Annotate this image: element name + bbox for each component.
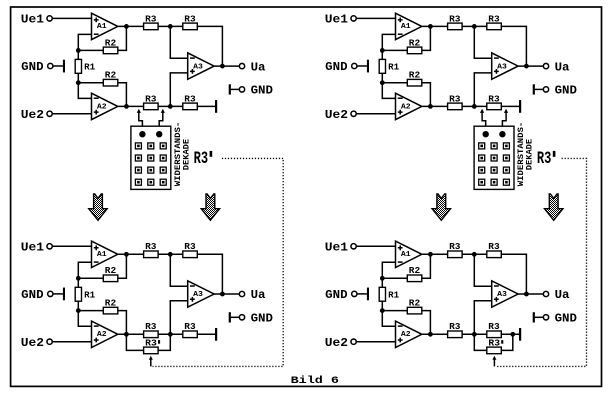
wire bottom chain (bottom-right) (462, 333, 487, 335)
node A1 feedback (top-left) (76, 48, 81, 53)
wire A2 output (bottom-right) (422, 333, 448, 335)
resistor R3 (top chain, second) (top-right) (487, 14, 502, 29)
wire A3 output to Ua (top-left) (214, 65, 239, 67)
node top chain junction (bottom-left) (168, 252, 173, 257)
resistor R3 (bottom chain, first) (bottom-right) (448, 322, 463, 337)
svg-text:A1: A1 (97, 251, 107, 259)
resistor R3 (bottom chain, second) (bottom-right) (487, 322, 502, 337)
svg-text:R2: R2 (105, 298, 116, 308)
resistor R3 (bottom chain, second) (top-left) (183, 94, 198, 109)
svg-text:Ue2: Ue2 (21, 108, 44, 122)
svg-text:R3: R3 (145, 14, 156, 24)
svg-text:GND: GND (21, 60, 43, 74)
resistor R1 (top-right) (379, 50, 400, 82)
wire A3 inverting input (top-left) (170, 26, 187, 58)
svg-text:R3: R3 (449, 14, 460, 24)
op-amp A2 (bottom-right) (396, 321, 422, 347)
svg-text:R3: R3 (537, 149, 552, 169)
svg-text:R3: R3 (488, 14, 499, 24)
wire A2 inverting input (top-left) (78, 83, 91, 99)
label R3' (decade value) (top-right) (537, 149, 555, 169)
svg-text:R3: R3 (145, 322, 156, 332)
arrow R3' adjustment (bottom-right) (492, 356, 496, 367)
wire R2 upper left (top-right) (382, 49, 407, 51)
svg-text:DEKADE: DEKADE (181, 139, 191, 170)
terminal GND (input side) (bottom-right) (325, 288, 369, 303)
wire A1 inverting input (top-right) (382, 34, 395, 50)
svg-text:Ua: Ua (251, 60, 266, 74)
terminal GND (input side) (bottom-left) (21, 288, 65, 303)
decade contact dot (right) (top-right) (499, 131, 505, 137)
wire bottom chain (top-left) (158, 105, 183, 107)
terminal GND (output side) (bottom-left) (229, 312, 273, 326)
terminal Ue2 (bottom-right) (325, 336, 396, 350)
resistor R3 (top chain, second) (bottom-right) (487, 242, 502, 257)
wire A3 inverting input (bottom-right) (474, 254, 491, 286)
resistor R2 (lower) (top-right) (407, 71, 422, 87)
wire A2 output (top-left) (118, 105, 144, 107)
ground (bottom-left) (215, 328, 217, 341)
svg-text:A2: A2 (97, 103, 107, 111)
decade tap arrow (left) (top-right) (480, 109, 486, 131)
node top chain junction (bottom-right) (472, 252, 477, 257)
terminal Ua (top-right) (543, 60, 569, 74)
resistor R1 (top-left) (75, 50, 96, 82)
op-amp A1 (bottom-left) (92, 241, 118, 267)
decade tap arrow (left) (top-left) (137, 109, 143, 131)
wire R3' right (bottom-right) (501, 334, 513, 350)
wire to ground bar (top-right) (501, 105, 519, 107)
wire to ground bar (bottom-right) (501, 333, 519, 335)
resistance decade box (top-right) (474, 126, 514, 189)
op-amp A1 (bottom-right) (396, 241, 422, 267)
svg-text:Ue1: Ue1 (21, 13, 44, 27)
resistor R3 (bottom chain, second) (bottom-left) (183, 322, 198, 337)
node bottom chain junction (top-right) (472, 104, 477, 109)
wire A3 inverting input (top-right) (474, 26, 491, 58)
svg-text:Ue2: Ue2 (21, 336, 44, 350)
svg-text:DEKADE: DEKADE (525, 139, 535, 170)
wire A3 output to Ua (bottom-right) (518, 293, 543, 295)
wire A3 noninverting input (top-right) (474, 73, 491, 107)
wire A3 inverting input (bottom-left) (170, 254, 187, 286)
label R3' (decade value) (top-left) (194, 149, 213, 169)
terminal Ue2 (bottom-left) (21, 336, 92, 350)
wire to ground bar (bottom-left) (197, 333, 215, 335)
node bottom chain junction (top-left) (168, 104, 173, 109)
node A1 output (top-left) (124, 24, 129, 29)
wire A3 noninverting input (bottom-left) (170, 301, 187, 335)
wire feedback to A3 output (bottom-right) (501, 254, 526, 294)
svg-text:R3: R3 (449, 322, 460, 332)
resistor R3 (top chain, first) (bottom-left) (144, 242, 159, 257)
svg-text:R3: R3 (184, 14, 195, 24)
svg-text:A2: A2 (97, 331, 107, 339)
resistor R2 (upper) (top-left) (103, 38, 118, 53)
resistor R3 (top chain, second) (bottom-left) (183, 242, 198, 257)
resistor R3&#39; (bottom-right) (487, 338, 504, 353)
node A1 output (bottom-right) (428, 252, 433, 257)
decade contact dot (left) (top-left) (139, 131, 145, 137)
svg-text:GND: GND (555, 84, 577, 98)
terminal Ue1 (bottom-right) (325, 240, 396, 254)
svg-text:Ua: Ua (251, 288, 266, 302)
node A1 output (bottom-left) (124, 252, 129, 257)
resistor R3 (bottom chain, first) (top-right) (448, 94, 463, 109)
svg-text:A1: A1 (97, 23, 107, 31)
terminal GND (output side) (top-right) (533, 84, 577, 98)
dotted link R3' (right half) (496, 158, 586, 366)
resistor R2 (upper) (top-right) (407, 38, 422, 53)
dotted link R3' (left half) (153, 158, 284, 366)
svg-text:GND: GND (251, 84, 273, 98)
node bottom chain junction (bottom-left) (168, 332, 173, 337)
wire R2 upper left (top-left) (78, 49, 103, 51)
node R3' right junction (bottom-right) (510, 332, 515, 337)
wire A1 inverting input (bottom-left) (78, 262, 91, 278)
wire A1 output (top-left) (118, 25, 144, 27)
node A3 output (bottom-left) (220, 292, 225, 297)
op-amp A2 (top-left) (92, 93, 118, 119)
resistor R2 (lower) (bottom-left) (103, 298, 118, 314)
transformation arrow 4 (545, 194, 563, 220)
svg-text:GND: GND (325, 288, 347, 302)
svg-text:Ue1: Ue1 (325, 240, 348, 254)
ground (bottom-right) (519, 328, 521, 341)
svg-text:Ua: Ua (555, 288, 570, 302)
svg-text:R3: R3 (449, 94, 460, 104)
arrow R3' adjustment (bottom-left) (149, 356, 153, 367)
terminal GND (output side) (top-left) (229, 84, 273, 98)
wire bottom chain (top-right) (462, 105, 487, 107)
node A2 output (top-left) (124, 104, 129, 109)
svg-text:R3: R3 (488, 242, 499, 252)
wire A2 output (top-right) (422, 105, 448, 107)
label DEKADE (top-right) (525, 139, 535, 170)
wire R2 upper left (bottom-right) (382, 277, 407, 279)
decade switch grid (top-right) (479, 143, 510, 185)
op-amp A3 (top-right) (492, 53, 518, 79)
wire A1 output (bottom-right) (422, 253, 448, 255)
op-amp A1 (top-right) (396, 13, 422, 39)
node A1 feedback (bottom-left) (76, 276, 81, 281)
node A2 feedback (bottom-right) (380, 308, 385, 313)
resistor R3 (bottom chain, first) (top-left) (144, 94, 159, 109)
svg-text:GND: GND (251, 312, 273, 326)
terminal GND (input side) (top-left) (21, 60, 65, 74)
wire R2 lower to A2 output (top-left) (118, 83, 127, 107)
ground (top-left) (215, 100, 217, 113)
wire A3 noninverting input (top-left) (170, 73, 187, 107)
svg-text:R3: R3 (184, 242, 195, 252)
svg-text:A3: A3 (193, 63, 203, 71)
wire R2 lower to A2 output (top-right) (422, 83, 431, 107)
node A2 feedback (top-right) (380, 80, 385, 85)
wire A2 inverting input (bottom-left) (78, 311, 91, 327)
svg-text:GND: GND (555, 312, 577, 326)
wire A2 output (bottom-left) (118, 333, 144, 335)
wire feedback to A3 output (top-right) (501, 26, 526, 66)
decade tap arrow (right) (top-left) (159, 109, 165, 131)
svg-text:A3: A3 (193, 291, 203, 299)
wire A2 inverting input (bottom-right) (382, 311, 395, 327)
wire top chain (bottom-right) (462, 253, 487, 255)
svg-text:R2: R2 (409, 298, 420, 308)
svg-text:R3: R3 (145, 338, 157, 348)
node A2 output (bottom-right) (428, 332, 433, 337)
svg-text:R2: R2 (409, 71, 420, 81)
svg-text:R3: R3 (488, 338, 500, 348)
wire A1 inverting input (bottom-right) (382, 262, 395, 278)
resistor R3 (top chain, first) (bottom-right) (448, 242, 463, 257)
node top chain junction (top-right) (472, 24, 477, 29)
transformation arrow 1 (89, 194, 107, 220)
svg-text:R2: R2 (409, 38, 420, 48)
wire A1 output (top-right) (422, 25, 448, 27)
svg-text:R1: R1 (84, 63, 96, 73)
svg-text:R3: R3 (449, 242, 460, 252)
node A2 output (top-right) (428, 104, 433, 109)
svg-text:R1: R1 (388, 63, 400, 73)
resistor R3 (bottom chain, first) (bottom-left) (144, 322, 159, 337)
resistor R2 (lower) (top-left) (103, 71, 118, 87)
svg-text:R1: R1 (388, 290, 400, 300)
wire A3 output to Ua (bottom-left) (214, 293, 239, 295)
svg-text:A1: A1 (401, 23, 411, 31)
svg-text:A2: A2 (401, 331, 411, 339)
wire R2 lower to A2 output (bottom-right) (422, 311, 431, 335)
node bottom chain junction (bottom-right) (472, 332, 477, 337)
resistor R2 (lower) (bottom-right) (407, 298, 422, 314)
svg-text:R3: R3 (184, 94, 195, 104)
wire feedback to A3 output (top-left) (197, 26, 222, 66)
wire R2 upper to A1 output (top-right) (422, 26, 431, 50)
svg-text:GND: GND (325, 60, 347, 74)
wire A2 inverting input (top-right) (382, 83, 395, 99)
svg-text:R2: R2 (105, 38, 116, 48)
svg-text:R3: R3 (488, 322, 499, 332)
terminal Ue1 (bottom-left) (21, 240, 92, 254)
wire R2 lower to A2 output (bottom-left) (118, 311, 127, 335)
wire R2 lower left (top-left) (78, 82, 103, 84)
wire R2 upper to A1 output (top-left) (118, 26, 127, 50)
decade switch grid (top-left) (135, 143, 166, 185)
decade contact dot (left) (top-right) (483, 131, 489, 137)
wire A1 inverting input (top-left) (78, 34, 91, 50)
svg-text:R2: R2 (409, 266, 420, 276)
svg-text:R3: R3 (194, 149, 209, 169)
svg-text:A2: A2 (401, 103, 411, 111)
wire R2 lower left (bottom-left) (78, 310, 103, 312)
terminal Ue1 (top-right) (325, 13, 396, 27)
terminal Ua (bottom-left) (239, 288, 265, 302)
terminal GND (input side) (top-right) (325, 60, 369, 74)
transformation arrow 3 (432, 194, 450, 220)
svg-text:R3: R3 (145, 94, 156, 104)
wire to ground bar (top-left) (197, 105, 215, 107)
svg-text:R2: R2 (105, 266, 116, 276)
terminal GND (output side) (bottom-right) (533, 312, 577, 326)
svg-text:R3: R3 (184, 322, 195, 332)
node A2 feedback (bottom-left) (76, 308, 81, 313)
svg-text:Ue1: Ue1 (325, 13, 348, 27)
resistor R1 (bottom-right) (379, 278, 400, 310)
svg-text:Ue1: Ue1 (21, 240, 44, 254)
wire R3' left (bottom-right) (474, 334, 487, 350)
svg-text:R2: R2 (105, 71, 116, 81)
terminal Ua (bottom-right) (543, 288, 569, 302)
transformation arrow 2 (201, 194, 219, 220)
caption Bild 6 (291, 375, 339, 387)
wire R2 upper to A1 output (bottom-left) (118, 254, 127, 278)
node A1 output (top-right) (428, 24, 433, 29)
node A3 output (top-right) (524, 64, 529, 69)
decade contact dot (right) (top-left) (156, 131, 162, 137)
terminal Ue1 (top-left) (21, 13, 92, 27)
svg-text:R3: R3 (145, 242, 156, 252)
node A2 feedback (top-left) (76, 80, 81, 85)
svg-text:R1: R1 (84, 290, 96, 300)
resistor R1 (bottom-left) (75, 278, 96, 310)
svg-text:Ue2: Ue2 (325, 336, 348, 350)
svg-text:Ue2: Ue2 (325, 108, 348, 122)
terminal Ua (top-left) (239, 60, 265, 74)
resistance decade box (top-left) (131, 126, 171, 189)
wire top chain (bottom-left) (158, 253, 183, 255)
node A2 output (bottom-left) (124, 332, 129, 337)
wire bottom chain (bottom-left) (158, 333, 183, 335)
svg-text:A3: A3 (497, 63, 507, 71)
resistor R3 (top chain, first) (top-left) (144, 14, 159, 29)
svg-text:Ua: Ua (555, 60, 570, 74)
node top chain junction (top-left) (168, 24, 173, 29)
svg-text:GND: GND (21, 288, 43, 302)
label WIDERSTANDS- (top-right) (516, 122, 526, 187)
svg-text:A3: A3 (497, 291, 507, 299)
wire A3 output to Ua (top-right) (518, 65, 543, 67)
resistor R2 (upper) (bottom-right) (407, 266, 422, 281)
wire A3 noninverting input (bottom-right) (474, 301, 491, 335)
wire R2 lower left (top-right) (382, 82, 407, 84)
wire top chain (top-right) (462, 25, 487, 27)
terminal Ue2 (top-right) (325, 108, 396, 122)
svg-text:R3: R3 (488, 94, 499, 104)
resistor R3 (top chain, first) (top-right) (448, 14, 463, 29)
op-amp A1 (top-left) (92, 13, 118, 39)
wire R2 lower left (bottom-right) (382, 310, 407, 312)
wire R3' left (bottom-left) (126, 334, 143, 350)
op-amp A2 (top-right) (396, 93, 422, 119)
resistor R2 (upper) (bottom-left) (103, 266, 118, 281)
node A3 output (top-left) (220, 64, 225, 69)
op-amp A2 (bottom-left) (92, 321, 118, 347)
svg-text:Bild 6: Bild 6 (291, 375, 339, 387)
wire R2 upper to A1 output (bottom-right) (422, 254, 431, 278)
wire A1 output (bottom-left) (118, 253, 144, 255)
wire R3' right (bottom-left) (158, 334, 170, 350)
node A1 feedback (bottom-right) (380, 276, 385, 281)
label DEKADE (top-left) (181, 139, 191, 170)
node A3 output (bottom-right) (524, 292, 529, 297)
ground (top-right) (519, 100, 521, 113)
resistor R3 (top chain, second) (top-left) (183, 14, 198, 29)
decade tap arrow (right) (top-right) (502, 109, 508, 131)
op-amp A3 (bottom-left) (188, 281, 214, 307)
resistor R3 (bottom chain, second) (top-right) (487, 94, 502, 109)
wire feedback to A3 output (bottom-left) (197, 254, 222, 294)
wire R2 upper left (bottom-left) (78, 277, 103, 279)
op-amp A3 (bottom-right) (492, 281, 518, 307)
terminal Ue2 (top-left) (21, 108, 92, 122)
node A1 feedback (top-right) (380, 48, 385, 53)
resistor R3&#39; (bottom-left) (144, 338, 161, 353)
label WIDERSTANDS- (top-left) (173, 122, 183, 187)
op-amp A3 (top-left) (188, 53, 214, 79)
wire top chain (top-left) (158, 25, 183, 27)
svg-text:A1: A1 (401, 251, 411, 259)
